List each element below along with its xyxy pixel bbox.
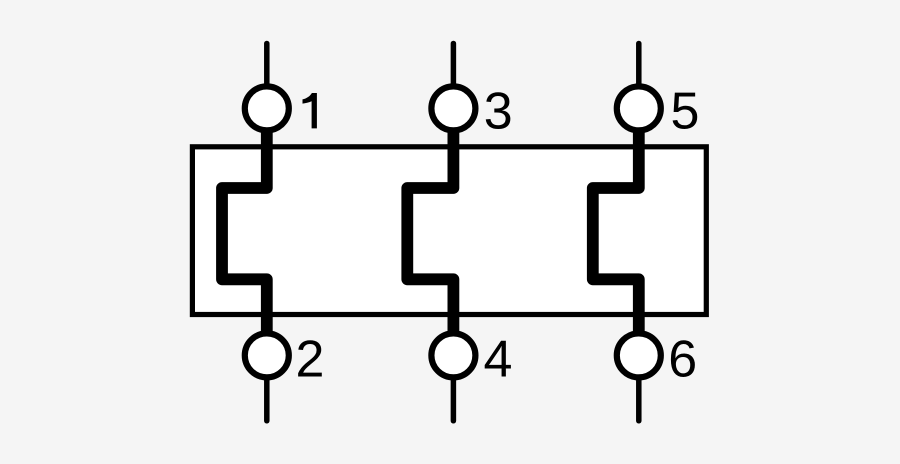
pin number label 1 [303,93,317,128]
pin 4 terminal circle [431,333,475,377]
wire lead pin 2 (bottom) [264,368,270,421]
pin 6 terminal circle [617,333,661,377]
svg-text:2: 2 [296,330,325,388]
svg-text:6: 6 [668,330,697,388]
pin 3 terminal circle [431,86,475,130]
wire lead pin 4 (bottom) [451,368,457,421]
resistor R1 (between pins 1 and 2) [222,126,267,338]
wire lead pin 6 (bottom) [636,368,642,421]
wire lead pin 1 (top) [264,44,270,96]
wire lead pin 5 (top) [636,44,642,96]
wire lead pin 3 (top) [451,44,457,96]
package body outline [192,147,706,315]
pin 5 terminal circle [617,86,661,130]
svg-text:5: 5 [671,82,700,140]
pin 2 terminal circle [245,333,289,377]
svg-text:4: 4 [484,330,513,388]
resistor R2 (between pins 3 and 4) [407,126,453,338]
resistor R3 (between pins 5 and 6) [593,126,639,338]
svg-text:3: 3 [484,82,513,140]
pin 1 terminal circle [245,86,289,130]
